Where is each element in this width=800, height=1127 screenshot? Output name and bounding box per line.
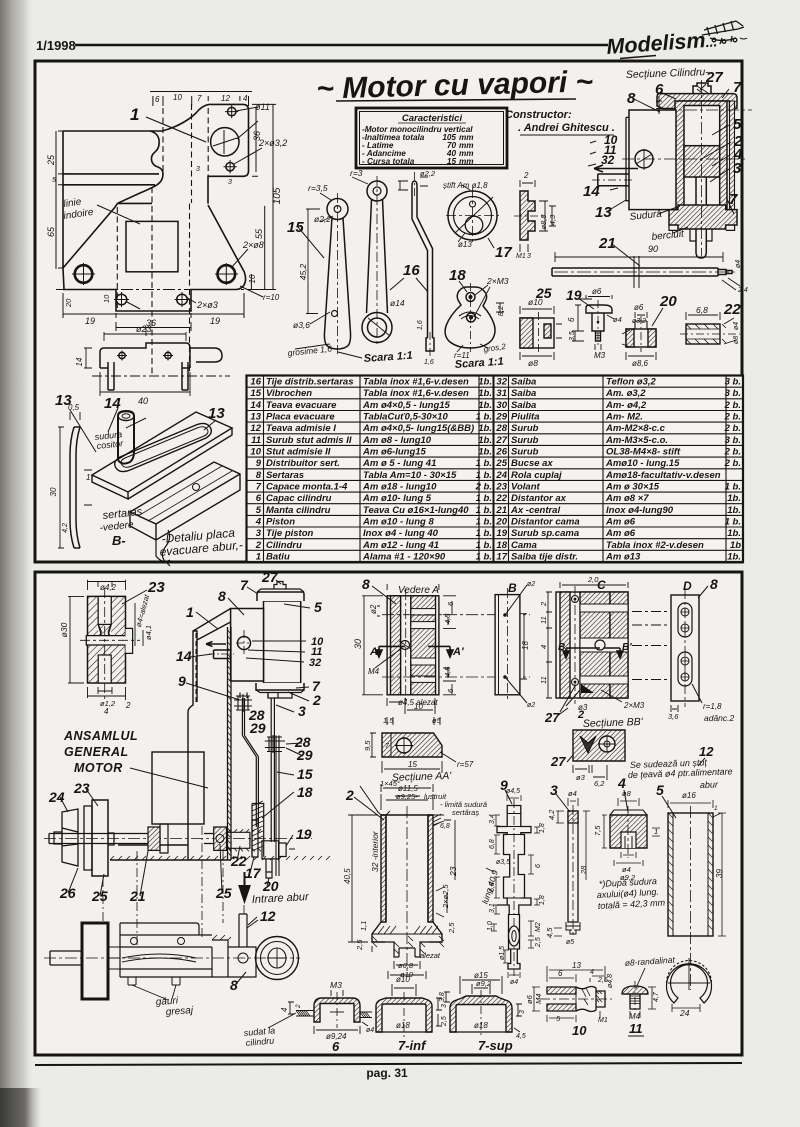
svg-text:Am ø4×0,5 - lung15: Am ø4×0,5 - lung15	[362, 400, 451, 411]
svg-text:Piston: Piston	[266, 517, 295, 528]
svg-text:Distantor cama: Distantor cama	[511, 517, 580, 528]
svg-text:10: 10	[102, 294, 111, 303]
svg-text:- Cursa totala: - Cursa totala	[362, 157, 415, 166]
svg-text:27: 27	[544, 710, 560, 725]
flywheel side (bold)	[82, 923, 108, 999]
svg-text:3: 3	[196, 166, 200, 173]
shaft	[49, 834, 214, 844]
svg-text:13: 13	[250, 412, 261, 423]
note Dupa sudura	[597, 876, 666, 911]
bottom notch	[621, 832, 636, 848]
svg-text:8: 8	[362, 576, 370, 592]
svg-text:20: 20	[495, 517, 507, 528]
svg-text:9: 9	[178, 673, 186, 689]
svg-text:ø2,2: ø2,2	[420, 169, 436, 178]
iso plate with slot	[92, 412, 232, 499]
svg-text:ø23: ø23	[136, 324, 152, 334]
iso pipe part 14	[118, 411, 134, 464]
part 13 dims	[58, 412, 92, 548]
svg-text:24: 24	[495, 470, 507, 481]
svg-text:1,8: 1,8	[539, 895, 546, 905]
svg-text:Am ø6: Am ø6	[605, 517, 636, 528]
right crank block	[199, 935, 228, 977]
svg-text:A: A	[369, 646, 378, 658]
svg-text:ø3,2: ø3,2	[632, 318, 646, 325]
svg-text:1 b.: 1 b.	[476, 412, 492, 423]
part 1 leader linie indoire	[97, 205, 140, 224]
svg-text:ø6,8: ø6,8	[398, 961, 414, 970]
svg-text:105: 105	[272, 187, 283, 204]
svg-text:3: 3	[228, 179, 232, 186]
svg-text:ø2: ø2	[527, 581, 535, 588]
leaders to dots	[505, 585, 527, 703]
svg-text:1 b.: 1 b.	[725, 517, 741, 528]
part 1 leader 2xø8	[231, 249, 248, 268]
svg-text:20: 20	[262, 878, 279, 894]
svg-text:ANSAMLUL: ANSAMLUL	[63, 729, 138, 743]
svg-text:19: 19	[210, 316, 220, 326]
svg-text:14: 14	[250, 400, 261, 411]
top sheet frame	[35, 61, 742, 562]
pulley left	[62, 809, 78, 866]
svg-text:10: 10	[250, 447, 261, 458]
shaft left	[50, 951, 82, 965]
steam stub 14	[214, 650, 231, 659]
part 1 hole big top (ø11)	[211, 128, 239, 156]
part 1 centerline horizontal bottom	[58, 289, 244, 291]
svg-text:M1: M1	[598, 1017, 608, 1024]
svg-text:Saiba: Saiba	[511, 388, 536, 399]
svg-text:B: B	[508, 581, 517, 595]
dims part 15	[306, 193, 333, 314]
svg-text:Alama #1 - 120×90: Alama #1 - 120×90	[362, 551, 446, 562]
svg-text:ø8: ø8	[528, 358, 538, 368]
svg-text:Surub sp.cama: Surub sp.cama	[511, 528, 579, 539]
right tab	[126, 628, 133, 653]
valve block part 8	[629, 110, 676, 210]
svg-text:ø3: ø3	[576, 773, 586, 782]
svg-text:4,2: 4,2	[62, 523, 69, 533]
svg-text:23: 23	[495, 482, 507, 493]
svg-text:2×ø2,5: 2×ø2,5	[441, 884, 450, 909]
svg-text:2 b.: 2 b.	[724, 423, 741, 434]
svg-text:6: 6	[655, 81, 664, 98]
svg-text:2,4: 2,4	[737, 287, 748, 294]
svg-text:1b.: 1b.	[727, 551, 741, 562]
svg-text:Tije distrib.sertaras: Tije distrib.sertaras	[266, 377, 353, 388]
svg-text:Tabla inox #2-v.desen: Tabla inox #2-v.desen	[606, 540, 704, 551]
svg-text:22: 22	[495, 493, 507, 504]
pag rule	[35, 1063, 742, 1065]
dims	[572, 295, 614, 350]
svg-text:6,2: 6,2	[594, 779, 605, 788]
svg-text:3: 3	[441, 1004, 448, 1008]
part 1 flat plate outline	[63, 104, 249, 311]
svg-text:1,5: 1,5	[383, 716, 394, 725]
batiu right edge hatched spine	[228, 627, 232, 860]
svg-text:4,5: 4,5	[443, 666, 452, 677]
part 16 rod with eye	[352, 172, 434, 357]
svg-text:TablaCuť0,5-30×10: TablaCuť0,5-30×10	[363, 412, 448, 423]
part 1 right dim lines (105 / 30 / 55 / 10)	[248, 104, 276, 289]
svg-text:10: 10	[414, 702, 423, 711]
section arrows A A'	[376, 646, 453, 657]
svg-text:1,6: 1,6	[417, 320, 424, 330]
svg-text:31: 31	[496, 388, 507, 399]
svg-text:30: 30	[496, 400, 507, 411]
part 1 dim texts	[46, 93, 287, 328]
svg-text:Am- M2.: Am- M2.	[605, 412, 643, 423]
svg-text:19: 19	[85, 316, 95, 326]
svg-text:29: 29	[296, 747, 313, 763]
svg-text:2,5: 2,5	[355, 939, 364, 951]
svg-text:1b: 1b	[730, 540, 741, 551]
svg-text:2,5: 2,5	[441, 1016, 448, 1027]
svg-text:B': B'	[622, 642, 632, 653]
label 12 leader	[247, 920, 258, 928]
svg-text:ø16: ø16	[682, 791, 696, 800]
dims	[68, 580, 143, 700]
svg-text:1: 1	[130, 105, 139, 124]
svg-text:M2: M2	[535, 922, 542, 932]
svg-text:3,1: 3,1	[489, 903, 496, 913]
svg-text:8: 8	[627, 90, 636, 107]
svg-text:17: 17	[245, 865, 262, 881]
svg-text:19: 19	[496, 528, 507, 539]
svg-text:Am ø6: Am ø6	[605, 528, 636, 539]
svg-text:A': A'	[452, 646, 464, 658]
leaders cylinder	[588, 84, 734, 233]
svg-text:4: 4	[243, 94, 248, 103]
weld hatch right top	[433, 814, 441, 826]
svg-text:27: 27	[550, 754, 566, 769]
svg-text:Am. ø3,2: Am. ø3,2	[605, 388, 646, 399]
part 18 cam plate	[445, 283, 504, 352]
part 1 leader ø11	[237, 121, 258, 139]
svg-text:Teava admisie I: Teava admisie I	[266, 423, 336, 434]
svg-text:pag. 31: pag. 31	[366, 1066, 408, 1080]
svg-text:6: 6	[535, 864, 542, 868]
assembly leader lines	[60, 580, 310, 925]
part 9 camshaft	[486, 795, 540, 978]
dims	[668, 800, 726, 936]
part 1 bottom-right big hole	[215, 263, 238, 285]
svg-text:Rola cuplaj: Rola cuplaj	[511, 470, 562, 481]
center rod strip	[401, 596, 411, 695]
svg-text:ø2: ø2	[527, 702, 535, 709]
svg-text:29: 29	[249, 720, 266, 736]
svg-text:ø9,2: ø9,2	[476, 979, 492, 988]
part 11 round head screw	[622, 968, 656, 1018]
C-ring (rola cuplaj)	[667, 958, 712, 1014]
part 21 long shaft	[552, 252, 740, 290]
mid circle	[595, 640, 605, 650]
svg-text:ø18: ø18	[396, 1021, 410, 1030]
svg-text:ø4: ø4	[733, 322, 740, 330]
svg-text:29: 29	[495, 412, 507, 423]
cap bottom boss	[268, 693, 292, 699]
svg-text:25: 25	[495, 458, 507, 469]
svg-text:1 b.: 1 b.	[725, 482, 741, 493]
part 2 cylinder section	[348, 784, 455, 979]
svg-text:MOTOR: MOTOR	[74, 761, 123, 775]
cylinder jacket part 5	[264, 601, 301, 683]
svg-text:6: 6	[155, 95, 160, 104]
svg-text:Tije piston: Tije piston	[266, 528, 314, 539]
svg-text:9: 9	[256, 458, 262, 469]
svg-text:ø10: ø10	[396, 975, 410, 984]
svg-text:Am- ø4,2: Am- ø4,2	[605, 400, 647, 411]
part 10 stepped sleeve	[532, 966, 612, 1022]
svg-text:ø3,6: ø3,6	[293, 320, 310, 330]
centerlines	[622, 80, 748, 256]
svg-text:2×ø3: 2×ø3	[196, 300, 218, 310]
leaders gauri gresaj	[132, 985, 176, 1000]
svg-text:M4: M4	[629, 1012, 641, 1021]
hub band	[86, 636, 126, 645]
svg-text:18: 18	[496, 540, 507, 551]
svg-text:19: 19	[296, 826, 312, 842]
bolts on pedestal	[131, 938, 138, 945]
bottom cap part 7	[256, 683, 304, 690]
dims	[486, 795, 540, 978]
svg-text:11: 11	[629, 1021, 643, 1036]
svg-text:B-: B-	[112, 533, 126, 548]
svg-text:26: 26	[495, 447, 507, 458]
svg-text:39: 39	[715, 869, 724, 878]
svg-text:ø18: ø18	[474, 1021, 488, 1030]
nut 28/29 on piston rod	[265, 735, 285, 753]
svg-text:3 b.: 3 b.	[725, 377, 741, 388]
iso lower block	[130, 462, 240, 540]
svg-text:Volant: Volant	[511, 482, 541, 493]
svg-text:40,5: 40,5	[343, 868, 352, 884]
dims	[444, 976, 522, 1032]
svg-text:13: 13	[595, 204, 612, 221]
svg-text:90: 90	[648, 244, 658, 254]
svg-text:7: 7	[256, 482, 262, 493]
svg-text:30: 30	[353, 639, 363, 649]
header	[36, 21, 747, 59]
part 22 sleeve	[680, 312, 740, 344]
batiu base	[110, 845, 231, 860]
svg-text:ø14: ø14	[390, 298, 405, 308]
small dim ticks top-left of cap	[656, 96, 662, 114]
svg-text:32: 32	[496, 377, 507, 388]
dims	[602, 798, 660, 866]
svg-text:8: 8	[218, 588, 226, 604]
bracket holes	[119, 352, 125, 358]
svg-text:23: 23	[73, 780, 90, 796]
spring curve	[122, 954, 196, 962]
shaft centerline	[44, 838, 312, 840]
svg-text:Vibrochen: Vibrochen	[266, 388, 312, 399]
svg-text:1b.: 1b.	[727, 493, 741, 504]
port circle	[238, 637, 251, 650]
svg-text:3,4: 3,4	[489, 814, 496, 824]
svg-text:4,3: 4,3	[548, 214, 557, 225]
leaders 16	[390, 278, 428, 292]
dims left	[546, 592, 552, 698]
svg-text:1: 1	[186, 604, 194, 620]
sleeve 22	[227, 832, 250, 848]
svg-text:GENERAL: GENERAL	[64, 745, 129, 759]
svg-text:21: 21	[598, 235, 616, 252]
B bar	[495, 585, 527, 703]
svg-text:14: 14	[583, 183, 600, 200]
steam pipe up	[239, 914, 247, 947]
svg-text:Surub: Surub	[511, 447, 539, 458]
cylinder labels	[583, 69, 743, 221]
svg-text:4,2: 4,2	[547, 809, 556, 820]
svg-text:3 b.: 3 b.	[725, 435, 741, 446]
sertar guide hatch (cam follower)	[252, 804, 264, 857]
svg-text:Inox ø4 - lung 40: Inox ø4 - lung 40	[363, 528, 439, 539]
svg-text:1,6: 1,6	[424, 359, 434, 366]
dims	[362, 584, 456, 725]
svg-text:Distantor ax: Distantor ax	[511, 493, 567, 504]
svg-text:Stut admisie II: Stut admisie II	[266, 447, 331, 458]
svg-text:gresaj: gresaj	[165, 1005, 194, 1018]
dims	[348, 784, 455, 952]
C block	[546, 582, 628, 712]
svg-text:3,6: 3,6	[668, 712, 679, 721]
svg-text:Cama: Cama	[511, 540, 537, 551]
bracket part (top of sertaras group)	[84, 328, 230, 396]
part 1 leader line for label 1	[146, 117, 206, 142]
cam bar 18	[276, 735, 279, 876]
part 1 bottom-left big hole	[72, 263, 95, 285]
top hole	[466, 293, 475, 302]
svg-text:11: 11	[251, 435, 261, 446]
svg-text:18: 18	[521, 641, 530, 650]
top cap part 7	[257, 592, 304, 601]
part 1 hole small upper (2xø3,2)	[225, 105, 238, 118]
svg-text:8,2: 8,2	[496, 305, 505, 316]
svg-text:Amø18-facultativ-v.desen: Amø18-facultativ-v.desen	[605, 470, 721, 481]
svg-text:2 b.: 2 b.	[724, 458, 741, 469]
svg-text:1 b.: 1 b.	[476, 540, 492, 551]
svg-text:27: 27	[261, 569, 279, 585]
svg-text:1 b.: 1 b.	[476, 517, 492, 528]
part 1 leader 2xø3,2	[234, 107, 262, 164]
left scanner shadow	[0, 0, 34, 1127]
svg-text:Placa evacuare: Placa evacuare	[266, 412, 335, 423]
svg-text:Amø10 - lung.15: Amø10 - lung.15	[605, 458, 680, 469]
knob 27	[274, 582, 286, 590]
cylinder section top right	[592, 80, 752, 258]
svg-text:13: 13	[208, 405, 225, 422]
batiu outline	[188, 609, 231, 861]
side view assembly lower	[44, 914, 300, 1000]
svg-text:1 b.: 1 b.	[476, 493, 492, 504]
svg-text:3: 3	[519, 1010, 526, 1014]
part 16 bent rod	[412, 186, 433, 338]
parts table frame	[247, 376, 744, 563]
svg-text:25: 25	[91, 888, 108, 904]
svg-text:Sertaras: Sertaras	[266, 470, 304, 481]
svg-text:ø4,5: ø4,5	[506, 788, 520, 795]
svg-text:5: 5	[52, 177, 56, 184]
white port bands on right column	[411, 609, 436, 615]
svg-text:17: 17	[496, 551, 507, 562]
slots	[678, 603, 692, 637]
svg-text:24: 24	[48, 789, 65, 805]
flared base	[372, 922, 442, 942]
svg-text:M4: M4	[534, 994, 543, 1004]
svg-text:23: 23	[147, 579, 165, 596]
svg-text:55: 55	[254, 228, 264, 239]
part 1 top dim chain	[150, 92, 252, 107]
svg-text:2,0: 2,0	[587, 575, 599, 584]
arrow steam out	[594, 165, 638, 172]
dims	[288, 990, 368, 1034]
cylinder walls hatched	[675, 101, 727, 210]
svg-text:B: B	[558, 642, 565, 653]
svg-text:Am ø12 - lung 41: Am ø12 - lung 41	[362, 540, 439, 551]
svg-text:Am ø 30×15: Am ø 30×15	[605, 482, 660, 493]
svg-text:r=57: r=57	[457, 760, 474, 769]
svg-text:Am ø6-lung15: Am ø6-lung15	[362, 447, 427, 458]
svg-text:14: 14	[104, 395, 121, 412]
svg-text:Piulita: Piulita	[511, 412, 540, 423]
horizontal centerline through ports	[382, 614, 530, 616]
svg-text:20: 20	[64, 298, 73, 308]
foot	[385, 942, 429, 957]
svg-text:ø4,8: ø4,8	[607, 974, 614, 988]
part 1 fold dashed lines	[117, 104, 208, 375]
svg-text:40: 40	[138, 396, 148, 406]
svg-text:1b.: 1b.	[727, 528, 741, 539]
svg-text:2: 2	[345, 787, 354, 803]
valve rod from chest	[242, 698, 258, 827]
svg-text:ø4: ø4	[613, 315, 622, 324]
svg-text:Teflon ø3,2: Teflon ø3,2	[606, 377, 657, 388]
svg-text:3 b.: 3 b.	[725, 388, 741, 399]
svg-text:ø6: ø6	[634, 303, 644, 312]
bottom sheet frame	[35, 572, 742, 1055]
svg-text:32: 32	[601, 153, 615, 167]
svg-text:45,2: 45,2	[298, 263, 308, 280]
svg-text:7: 7	[197, 94, 202, 103]
dims	[532, 966, 605, 1022]
svg-text:9: 9	[500, 777, 508, 793]
svg-text:8: 8	[230, 977, 238, 993]
svg-text:Tabla inox #1,6-v.desen: Tabla inox #1,6-v.desen	[363, 388, 469, 399]
svg-text:8: 8	[256, 470, 262, 481]
part 1 bottom dim chain	[63, 293, 244, 331]
svg-text:Cilindru: Cilindru	[266, 540, 302, 551]
svg-text:1 b.: 1 b.	[476, 551, 492, 562]
svg-text:1b.: 1b.	[478, 388, 492, 399]
svg-text:4: 4	[617, 775, 626, 791]
svg-text:30: 30	[49, 487, 58, 496]
svg-text:ø3,5: ø3,5	[496, 859, 510, 866]
leader randalinat	[636, 968, 645, 988]
svg-text:27: 27	[495, 435, 507, 446]
svg-text:M3: M3	[594, 351, 606, 360]
sertaras isometric detail	[70, 408, 240, 566]
svg-text:ø8,8: ø8,8	[539, 214, 548, 230]
svg-text:r=10: r=10	[263, 293, 280, 302]
svg-text:1×45°: 1×45°	[380, 779, 400, 788]
part 1 inner square	[126, 221, 178, 271]
part 1 leader 2xø3	[127, 297, 196, 309]
svg-text:2,5: 2,5	[447, 922, 456, 934]
svg-text:abur: abur	[700, 779, 719, 790]
svg-text:28: 28	[579, 865, 588, 875]
svg-text:32 -interior: 32 -interior	[370, 830, 380, 872]
